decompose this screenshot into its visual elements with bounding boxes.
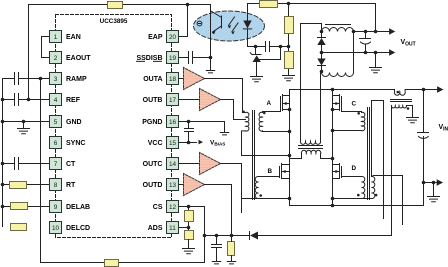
- transistor QD MOSFET: [333, 164, 342, 179]
- wire: top line to opto collector: [188, 5, 211, 58]
- pin 18 box OUTA: [167, 73, 179, 85]
- ground: CS filter cap: [212, 262, 220, 264]
- node: phase C: [331, 157, 335, 161]
- wire: RAMP-CS rail and IC bottom wire: [41, 79, 205, 263]
- ground: divider: [283, 76, 295, 81]
- node: CT left rail: [1, 162, 5, 166]
- node: divider mid: [287, 45, 291, 49]
- resistor R6 feedback top: [260, 1, 278, 8]
- wire: VOUT- rail: [322, 52, 390, 54]
- ground: GND pin: [23, 122, 25, 129]
- node: VIN cap junction: [422, 88, 426, 92]
- transformer T4 D left winding: [362, 176, 365, 198]
- svg-text:EAN: EAN: [66, 34, 81, 41]
- transformer T2 secondary A winding: [259, 112, 262, 131]
- pin 16 box PGND: [167, 116, 179, 128]
- resistor R7 divider top: [288, 4, 290, 47]
- svg-text:D: D: [352, 165, 357, 172]
- node: D source rail: [331, 204, 335, 208]
- svg-text:DELCD: DELCD: [66, 225, 90, 232]
- svg-text:18: 18: [169, 76, 177, 83]
- wire: VCC row: [179, 142, 197, 144]
- node: GND ground stem: [22, 120, 26, 124]
- wire: A winding return: [263, 130, 290, 133]
- polarity dot T4 D-right: [375, 194, 378, 197]
- svg-text:EAOUT: EAOUT: [66, 55, 91, 62]
- node: VIN return ground: [432, 181, 436, 185]
- pin 15 box VCC: [167, 137, 179, 149]
- capacitor C9 output polarized: [364, 30, 368, 34]
- node: C return: [331, 129, 335, 133]
- transformer T4 D right winding: [372, 176, 375, 198]
- node: RT left rail: [1, 183, 5, 187]
- polarity dot T2 secA: [263, 112, 266, 115]
- svg-text:10: 10: [52, 225, 60, 232]
- node: C source: [331, 108, 335, 112]
- svg-text:4: 4: [54, 97, 58, 104]
- transformer T1 secondary winding: [300, 141, 320, 144]
- wire: OUTA to T2 primary top: [205, 79, 246, 113]
- wire: T2 primary bottom to phase A: [242, 131, 290, 156]
- svg-text:8: 8: [54, 182, 58, 189]
- pin 8 box RT: [50, 179, 62, 191]
- diode D2 current sense (pointing left): [250, 232, 258, 240]
- transformer T2 secondary B winding: [255, 176, 258, 198]
- polarity dot T3 primary: [397, 91, 400, 94]
- svg-text:DELAB: DELAB: [66, 204, 90, 211]
- wire: SSDISB row to cap: [179, 57, 211, 59]
- wire: VIN rail down and bottom bridge rail: [290, 90, 424, 206]
- wire: ADS row: [179, 227, 189, 229]
- LED D1 opto: [247, 4, 249, 21]
- node: C drain rail: [331, 88, 335, 92]
- resistor R11 CS filter: [228, 242, 235, 256]
- pin 11 box ADS: [167, 222, 179, 234]
- ground: PGND: [220, 133, 228, 135]
- wire: D right winding riser up-over: [372, 101, 384, 219]
- opto-coupler U2 ellipse: [194, 11, 265, 41]
- svg-text:OUTD: OUTD: [143, 182, 163, 189]
- node: A return: [288, 130, 292, 134]
- VIN arrow: [437, 86, 443, 92]
- polarity dot T3 secondary: [407, 107, 410, 110]
- pin 4 box REF: [50, 94, 62, 106]
- capacitor C1 RAMP: [15, 73, 19, 85]
- svg-text:1: 1: [54, 34, 58, 41]
- resistor R10 CS divider bottom: [185, 231, 194, 240]
- svg-text:GND: GND: [66, 119, 82, 126]
- node: bottom CS node: [203, 234, 207, 238]
- transformer T3 core: [391, 100, 412, 102]
- wire: gate C: [342, 112, 362, 113]
- buffer OUTA: [179, 78, 184, 80]
- VBIAS arrow: [199, 140, 204, 145]
- pin 10 box DELCD: [50, 222, 62, 234]
- svg-text:3: 3: [54, 76, 58, 83]
- node: rectifier mid: [320, 51, 324, 55]
- node: phase A: [288, 154, 292, 158]
- transformer T3 current-sense primary: [394, 90, 405, 96]
- transistor QB MOSFET: [280, 164, 290, 179]
- inductor L1: [322, 28, 354, 32]
- wire: RAMP row: [3, 78, 50, 80]
- wire: left ground rail: [2, 79, 4, 227]
- svg-text:17: 17: [169, 97, 177, 104]
- wire: REF row: [3, 99, 50, 101]
- opto light arrows: [229, 17, 239, 32]
- transistor QA MOSFET: [281, 95, 290, 112]
- IC U1 UCC3895 dashed outline: [56, 15, 172, 238]
- svg-text:C: C: [352, 101, 357, 108]
- svg-text:6: 6: [54, 140, 58, 147]
- svg-text:20: 20: [169, 34, 177, 41]
- transformer T4 core: [368, 108, 370, 200]
- node: CS filter cap: [215, 234, 219, 238]
- svg-text:9: 9: [54, 204, 58, 211]
- svg-text:CS: CS: [153, 204, 163, 211]
- wire: EAN-EAOUT feedback bracket: [42, 37, 50, 58]
- capacitor C4 SSDISB: [189, 52, 193, 64]
- node: divider top: [287, 2, 291, 6]
- pin 14 box OUTC: [167, 158, 179, 170]
- ground: opto emitter: [210, 58, 212, 71]
- node: rectifier node B: [320, 70, 324, 74]
- wire: OUTD routing: [205, 185, 232, 236]
- ground: VOUT: [374, 51, 378, 55]
- capacitor C8 VIN polarized: [418, 133, 429, 139]
- svg-text:2: 2: [54, 55, 58, 62]
- svg-text:11: 11: [169, 225, 176, 232]
- pin 2 box EAOUT: [50, 52, 62, 64]
- svg-text:B: B: [268, 168, 273, 175]
- wire: gate B: [259, 176, 280, 178]
- pin 17 box OUTB: [167, 94, 179, 106]
- wire: left bridge leg: [289, 90, 291, 206]
- wire: TL431 ref connection: [259, 47, 280, 60]
- ground: CS divider: [183, 249, 195, 254]
- pin 7 box CT: [50, 158, 62, 170]
- wire: GND row: [3, 121, 50, 123]
- transformer T2 primary winding: [246, 112, 249, 131]
- svg-text:OUTC: OUTC: [143, 161, 163, 168]
- wire: B winding return: [243, 198, 290, 200]
- wire: C source stub: [333, 109, 340, 111]
- pin 6 box SYNC: [50, 137, 62, 149]
- transformer T2 core: [253, 111, 255, 200]
- node: VCC: [187, 141, 191, 145]
- wire: PGND row: [179, 122, 225, 133]
- pin 12 box CS: [167, 201, 179, 213]
- polarity dot T2 secB: [259, 194, 262, 197]
- svg-text:REF: REF: [66, 97, 81, 104]
- node: CS: [187, 205, 191, 209]
- pin 19 box SSDISB: [167, 52, 179, 64]
- wire: OUTB to T2 primary: [221, 100, 246, 120]
- wire: VOUT+ rail: [354, 31, 390, 33]
- wire: DELAB row: [3, 206, 50, 208]
- resistor R1 on REF top line: [108, 2, 123, 9]
- node: TL431 ref: [279, 45, 283, 49]
- svg-text:13: 13: [169, 182, 177, 189]
- pin 9 box DELAB: [50, 201, 62, 213]
- svg-text:CT: CT: [66, 161, 76, 168]
- polarity dot T4 D-left: [357, 194, 360, 197]
- svg-text:RAMP: RAMP: [66, 76, 87, 83]
- wire: RT row: [3, 184, 50, 186]
- pin 20 box EAP: [167, 31, 179, 43]
- ground: TL431: [251, 77, 263, 82]
- node: opto emitter junction: [209, 56, 213, 60]
- node: RAMP junction: [39, 77, 43, 81]
- transformer T1 core: [299, 146, 323, 149]
- wire: VIN top rail: [290, 89, 438, 91]
- resistor R9 CS divider top: [188, 207, 190, 231]
- svg-text:14: 14: [169, 161, 177, 168]
- wire: C winding return: [333, 130, 362, 132]
- pin 5 box GND: [50, 116, 62, 128]
- svg-text:19: 19: [169, 55, 177, 62]
- ground: VIN return: [433, 183, 435, 197]
- buffer OUTC: [179, 163, 200, 165]
- transistor QC MOSFET: [333, 95, 342, 112]
- svg-text:EAP: EAP: [148, 34, 163, 41]
- wire: T1 primary right to phase C: [321, 154, 333, 159]
- node: REF left rail: [1, 98, 5, 102]
- inductor L1 core bar: [326, 24, 351, 26]
- node: rectifier node A: [320, 30, 324, 34]
- svg-text:A: A: [267, 100, 272, 107]
- wire: gate A: [263, 112, 281, 113]
- wire: D outer over to dead riser: [372, 176, 403, 225]
- node: VIN bottom tap: [422, 181, 426, 185]
- wire: top REF line and left drop: [29, 5, 188, 100]
- wire: CT row: [3, 163, 50, 165]
- ground: CS filter res: [227, 262, 235, 264]
- node: B return: [288, 197, 292, 201]
- svg-text:5: 5: [54, 119, 58, 126]
- node: REF top-line junction: [27, 98, 31, 102]
- pin 13 box OUTD: [167, 179, 179, 191]
- wire: TL431 node row: [256, 46, 289, 48]
- transformer T1 winding verticals: [301, 24, 321, 142]
- svg-text:15: 15: [169, 140, 177, 147]
- polarity dot T2 primary: [242, 111, 245, 114]
- capacitor C7 CS filter: [212, 236, 222, 262]
- node: DELAB left rail: [1, 205, 5, 209]
- svg-text:7: 7: [54, 161, 58, 168]
- svg-text:PGND: PGND: [142, 119, 162, 126]
- node: CS filter res: [230, 234, 234, 238]
- node: D return: [331, 197, 335, 201]
- wire: top feedback line to VOUT tap: [248, 4, 376, 32]
- shunt regulator U3 TL431: [255, 47, 257, 55]
- node: TL431 cathode: [254, 45, 258, 49]
- resistor R5 DELCD floating: [11, 224, 27, 231]
- wire: D winding bottoms return: [333, 198, 373, 200]
- node: EAP junction: [186, 3, 190, 7]
- resistor R8 divider bottom: [288, 47, 290, 76]
- polarity dot T4 C: [357, 112, 360, 115]
- node: A source: [288, 108, 292, 112]
- wire: L2 to VOUT rail: [353, 32, 355, 73]
- wire: T1 primary left to phase A: [290, 154, 302, 159]
- resistor R4 DELAB: [11, 203, 28, 210]
- svg-text:12: 12: [169, 204, 177, 211]
- transformer T4 C winding: [362, 112, 365, 130]
- wire: EAP pin to top junction: [179, 5, 188, 37]
- capacitor C2 REF: [15, 94, 19, 106]
- svg-text:ADS: ADS: [148, 225, 163, 232]
- node: GND left rail: [1, 120, 5, 124]
- svg-text:RT: RT: [66, 182, 76, 189]
- wire: current-sense bottom line: [205, 106, 392, 236]
- wire: gate D: [342, 176, 362, 178]
- svg-text:OUTB: OUTB: [143, 97, 163, 104]
- svg-text:16: 16: [169, 119, 177, 126]
- node: L1 right: [352, 30, 356, 34]
- transistor Q5 opto phototransistor: [211, 11, 222, 32]
- wire: right bridge leg: [332, 90, 334, 206]
- capacitor C5 feedback: [266, 42, 270, 52]
- svg-text:VBIAS: VBIAS: [210, 140, 225, 147]
- capacitor C3 CT: [15, 158, 19, 170]
- resistor R2 ramp-cs: [105, 260, 119, 267]
- wire: CS row: [179, 207, 205, 236]
- wire: T3 secondary right to ground: [412, 106, 414, 118]
- svg-text:UCC3895: UCC3895: [100, 18, 128, 25]
- diode D4 rectifier lower: [321, 53, 323, 59]
- pin 1 box EAN: [50, 31, 62, 43]
- transformer T3 secondary: [391, 106, 412, 108]
- buffer OUTB: [179, 99, 200, 101]
- svg-text:OUTA: OUTA: [143, 76, 162, 83]
- transformer T1 primary winding: [301, 150, 320, 153]
- buffer OUTD: [179, 184, 184, 186]
- capacitor C6 VCC bypass: [185, 122, 194, 143]
- diode D3 rectifier upper: [318, 32, 326, 38]
- pin 3 box RAMP: [50, 73, 62, 85]
- node: CS divider mid ADS: [187, 226, 191, 230]
- resistor R3 RT: [10, 182, 27, 189]
- wire: node A feed: [301, 24, 322, 32]
- svg-text:VCC: VCC: [148, 140, 163, 147]
- svg-text:SYNC: SYNC: [66, 140, 85, 147]
- node: VOUT feedback tap: [374, 30, 378, 34]
- wire: OUTC routing: [221, 164, 242, 213]
- inductor L2: [322, 73, 354, 77]
